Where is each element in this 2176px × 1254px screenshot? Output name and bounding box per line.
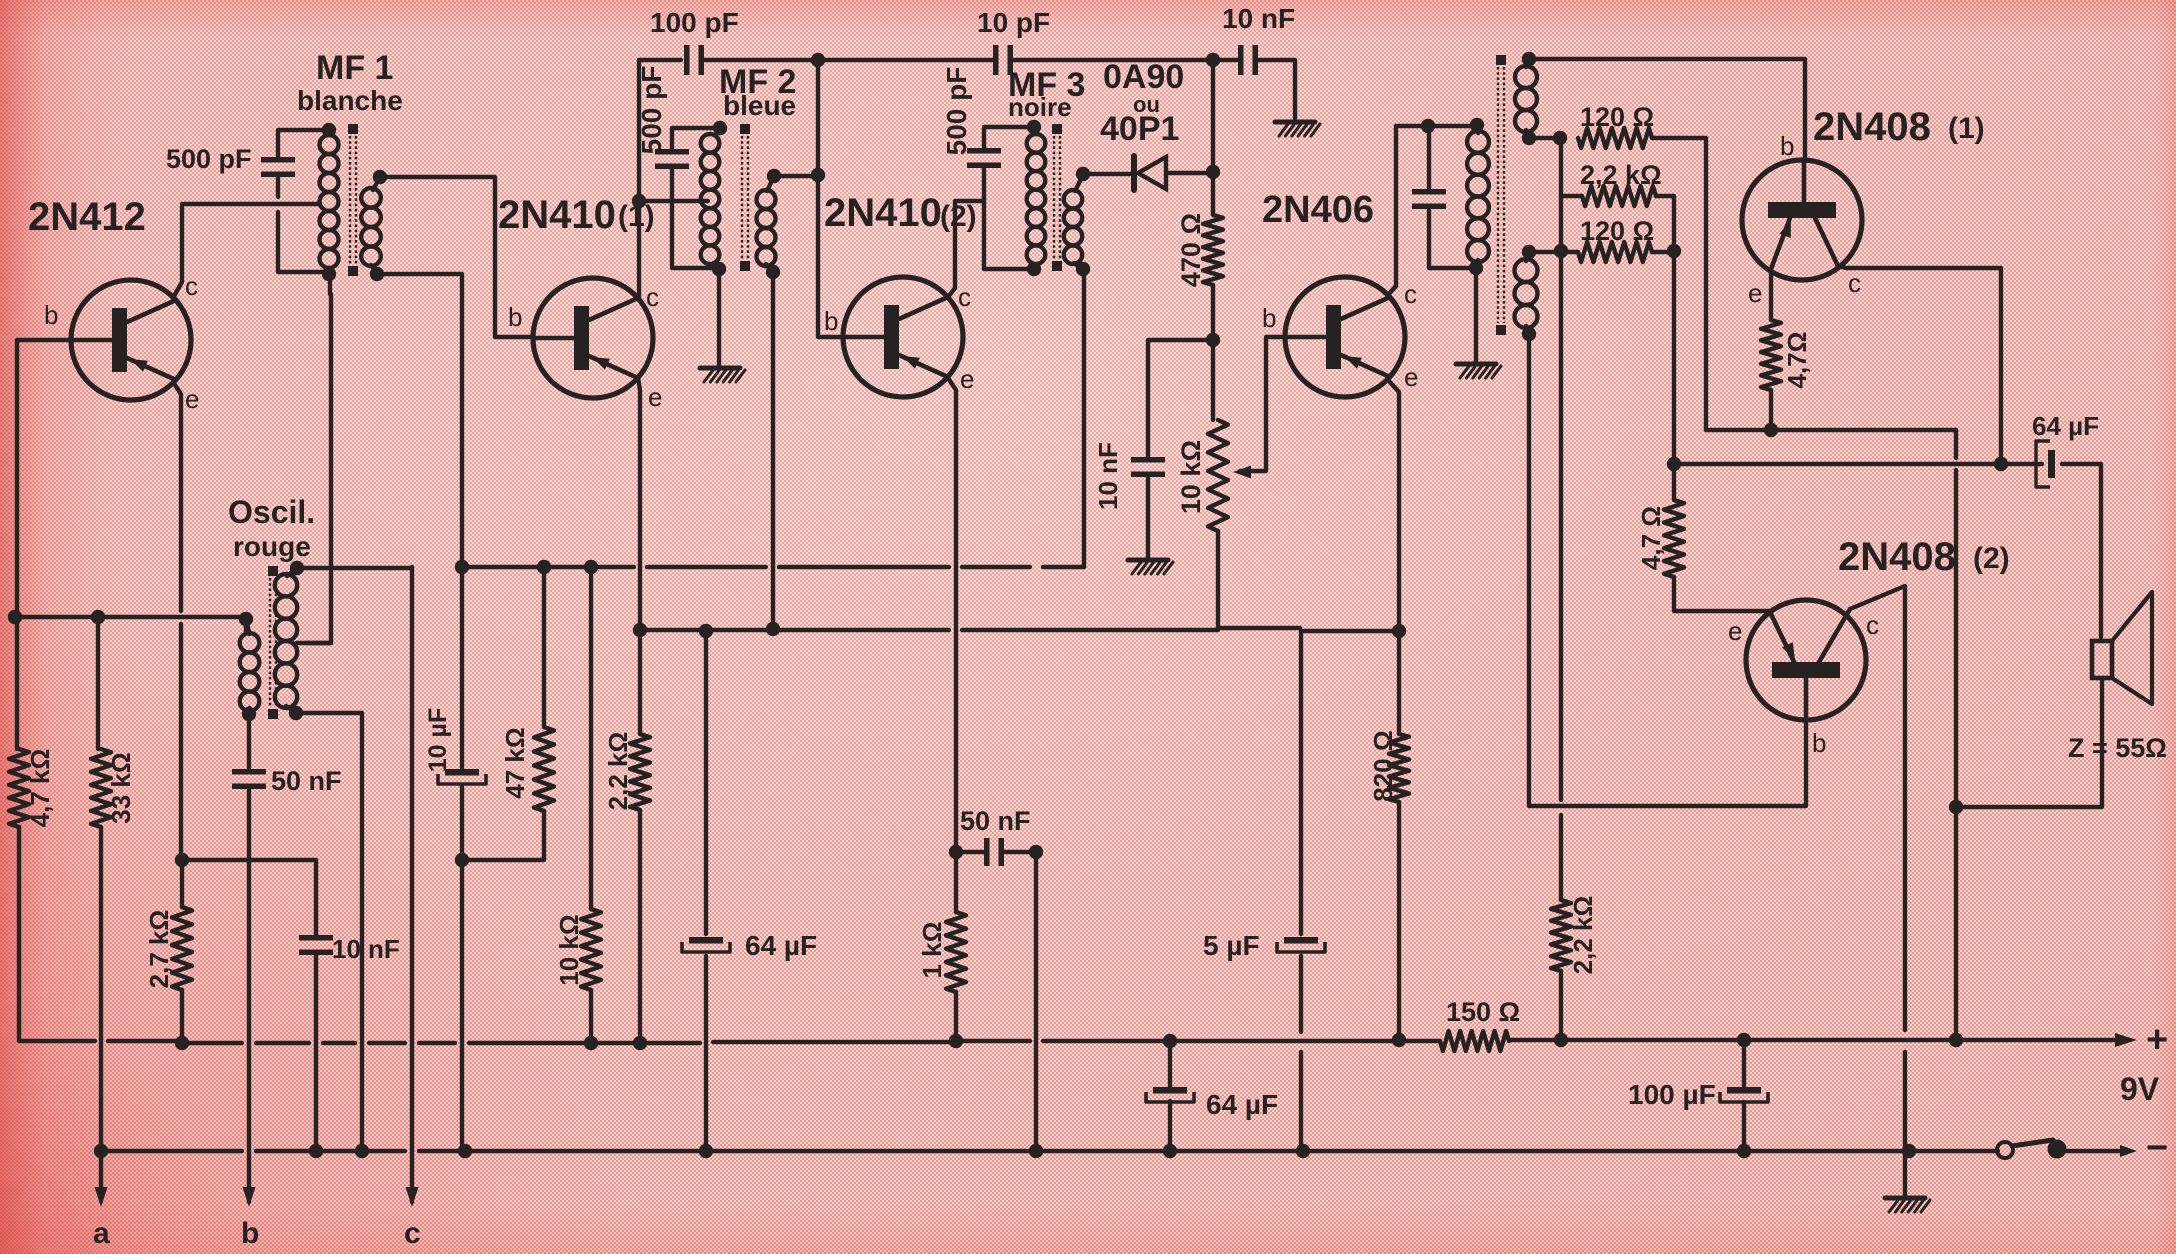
wire AVC line xyxy=(462,565,1084,569)
ground 10nF top xyxy=(1275,122,1320,136)
svg-text:100 pF: 100 pF xyxy=(650,7,739,38)
label 100pF xyxy=(650,7,739,38)
svg-text:(2): (2) xyxy=(940,200,977,233)
svg-text:500 pF: 500 pF xyxy=(941,67,972,156)
resistor 150 xyxy=(1440,1031,1509,1051)
svg-text:e: e xyxy=(648,382,662,412)
svg-text:100 µF: 100 µF xyxy=(1628,1079,1716,1110)
label 10uF xyxy=(424,708,452,772)
svg-text:2,2 kΩ: 2,2 kΩ xyxy=(603,732,633,811)
label 1k xyxy=(917,922,947,979)
switch S1 xyxy=(1997,1140,2067,1159)
resistor 2,2k-2 xyxy=(1551,900,1571,971)
pin c 2N408(2) xyxy=(1866,610,1879,640)
wire MF1 cap top lead xyxy=(278,130,329,158)
svg-text:10 kΩ: 10 kΩ xyxy=(1176,440,1206,514)
svg-text:b: b xyxy=(1780,131,1794,161)
label plus xyxy=(2146,1019,2168,1061)
svg-text:MF 1: MF 1 xyxy=(316,49,393,87)
wire 10nF emitter bypass lower lead xyxy=(314,953,318,1151)
wire 2N410(2) emitter xyxy=(948,378,956,912)
svg-text:4,7Ω: 4,7Ω xyxy=(1782,332,1812,389)
wire 2N412 emitter xyxy=(173,382,181,860)
label 2,2k-3 xyxy=(1580,160,1662,190)
ground switch xyxy=(1885,1198,1930,1212)
wire MF2 secondary bottom drop xyxy=(771,272,775,629)
wire 2N406 emitter xyxy=(1388,380,1399,631)
svg-text:2N408: 2N408 xyxy=(1813,105,1931,149)
pin e 2N410(2) xyxy=(960,364,974,394)
transformer MF3 primary coil xyxy=(1027,134,1046,264)
svg-text:nF: nF xyxy=(368,934,400,964)
label 500pF (MF3) xyxy=(941,67,972,156)
label 4,7-2 xyxy=(1636,506,1666,570)
svg-text:10 nF: 10 nF xyxy=(1222,3,1295,34)
capacitor 500pF (MF2) xyxy=(655,149,689,169)
capacitor 50nF oscillator xyxy=(232,769,266,789)
transistor 2N412 xyxy=(71,280,191,400)
svg-text:5 µF: 5 µF xyxy=(1203,930,1260,961)
wire MF2 primary tap xyxy=(639,199,708,203)
svg-text:64 µF: 64 µF xyxy=(745,930,817,961)
svg-text:2,7 kΩ: 2,7 kΩ xyxy=(144,910,174,989)
svg-text:33 kΩ: 33 kΩ xyxy=(106,752,136,823)
svg-text:e: e xyxy=(1728,616,1742,646)
svg-text:1 kΩ: 1 kΩ xyxy=(917,922,947,979)
pin c 2N406 xyxy=(1404,279,1417,309)
wire c line xyxy=(410,567,414,1202)
wire MF1 secondary top to base xyxy=(380,177,533,337)
transistor 2N408(1) xyxy=(1742,160,1862,280)
svg-text:−: − xyxy=(2146,1127,2168,1169)
wire line y630 xyxy=(640,628,1218,632)
label MF1 xyxy=(316,49,393,87)
wire MF2 primary bottom to ground xyxy=(717,269,721,366)
svg-text:e: e xyxy=(1404,362,1418,392)
svg-text:e: e xyxy=(960,364,974,394)
pin e 2N408(2) xyxy=(1728,616,1742,646)
resistor 1k xyxy=(946,912,966,992)
capacitor 10uF xyxy=(438,769,486,784)
wire MF1 secondary bottom drop xyxy=(377,274,462,567)
label 10k AVC xyxy=(554,914,584,985)
driver transformer secondary top coil xyxy=(1515,66,1537,132)
svg-text:500 pF: 500 pF xyxy=(166,144,252,174)
label 10pF xyxy=(977,7,1050,38)
label 2N408(2) xyxy=(1838,535,2010,579)
svg-text:2,2 kΩ: 2,2 kΩ xyxy=(1580,160,1662,190)
wire driver sec bottom to Q2 base xyxy=(1529,334,1806,806)
capacitor 10nF detector xyxy=(1131,457,1165,477)
svg-text:0A90: 0A90 xyxy=(1103,58,1184,96)
wire 64uF drop xyxy=(704,631,708,1151)
wire 2N410(2) base feed xyxy=(818,60,844,337)
svg-text:b: b xyxy=(508,302,522,332)
svg-text:820 Ω: 820 Ω xyxy=(1368,730,1398,801)
oscillator secondary coil xyxy=(240,633,260,711)
wire speaker bottom xyxy=(1956,680,2102,807)
svg-text:c: c xyxy=(404,1217,421,1250)
label 120-1 xyxy=(1580,102,1654,132)
svg-text:(2): (2) xyxy=(1973,542,2010,575)
arrowhead plus rail xyxy=(2115,1033,2137,1047)
arrowhead minus rail xyxy=(2120,1145,2137,1157)
pin c 2N410(1) xyxy=(646,282,659,312)
svg-text:Z = 55Ω: Z = 55Ω xyxy=(2068,733,2167,763)
arrowhead a xyxy=(95,1187,108,1207)
resistor 470 xyxy=(1203,215,1223,285)
svg-text:c: c xyxy=(185,271,198,301)
wire Q1 emitter xyxy=(1769,269,1773,320)
label 2N410(1) xyxy=(498,193,655,237)
capacitor 10nF top xyxy=(1238,45,1258,75)
capacitor 100uF xyxy=(1720,1087,1768,1102)
resistor 2,2k-3 xyxy=(1582,186,1656,206)
driver transformer secondary bottom coil xyxy=(1515,259,1538,328)
wire 2N410(1) emitter xyxy=(638,378,640,734)
svg-text:blanche: blanche xyxy=(297,85,403,116)
label 120-2 xyxy=(1580,216,1654,246)
svg-text:e: e xyxy=(185,384,199,414)
svg-text:470 Ω: 470 Ω xyxy=(1176,213,1206,287)
wire Q1 collector xyxy=(1838,266,2001,464)
label 2N408(1) xyxy=(1813,105,1985,149)
wire driver cap leads xyxy=(1429,126,1476,268)
capacitor 64uF output xyxy=(2036,441,2055,487)
wire 820 leads xyxy=(1397,631,1401,1040)
driver transformer primary coil xyxy=(1467,131,1489,262)
svg-text:rouge: rouge xyxy=(233,531,311,562)
wire 100uF leads xyxy=(1742,1040,1746,1151)
capacitor 500pF (MF1) xyxy=(261,157,295,177)
pin b 2N412 xyxy=(44,300,58,330)
driver transformer core xyxy=(1496,55,1506,335)
wire diode line xyxy=(1083,173,1213,174)
wire MF3 secondary bottom drop xyxy=(1082,269,1086,567)
wire 47k leads xyxy=(462,567,544,860)
wire 50nF emitter bypass xyxy=(956,850,1036,854)
svg-text:10 pF: 10 pF xyxy=(977,7,1050,38)
svg-text:9V: 9V xyxy=(2120,1071,2160,1107)
svg-text:c: c xyxy=(1866,610,1879,640)
pin e 2N410(1) xyxy=(648,382,662,412)
pin b 2N406 xyxy=(1262,303,1276,333)
wire driver sec top bottom link xyxy=(1529,136,1560,140)
label 470 xyxy=(1176,213,1206,287)
pin c 2N408(1) xyxy=(1848,268,1861,298)
svg-text:Oscil.: Oscil. xyxy=(228,494,315,530)
wire 64uF bottom leads xyxy=(1168,1041,1172,1151)
capacitor 64uF IF xyxy=(682,937,730,952)
svg-text:c: c xyxy=(1848,268,1861,298)
svg-text:50 nF: 50 nF xyxy=(960,806,1031,836)
svg-text:50 nF: 50 nF xyxy=(271,766,342,796)
label 9V xyxy=(2120,1071,2160,1107)
arrowhead c xyxy=(406,1187,419,1207)
wire Q1 base line xyxy=(1529,59,1805,160)
svg-text:150 Ω: 150 Ω xyxy=(1446,997,1520,1027)
wire MF1 cap bottom lead xyxy=(278,176,325,272)
label 2,7k xyxy=(144,910,174,989)
svg-text:b: b xyxy=(824,306,838,336)
ground 10nF detector xyxy=(1128,560,1173,574)
label 820 xyxy=(1368,730,1398,801)
ground driver primary xyxy=(1456,364,1501,378)
speaker Z=55 xyxy=(2092,592,2152,704)
wire MF2 secondary top link xyxy=(774,174,818,178)
wire minus rail after switch xyxy=(2064,1149,2119,1153)
svg-text:4,7 kΩ: 4,7 kΩ xyxy=(25,749,55,828)
oscillator primary coil xyxy=(275,574,297,708)
label 2,2k-2 xyxy=(1568,896,1598,975)
svg-text:64 µF: 64 µF xyxy=(2032,411,2099,441)
svg-text:b: b xyxy=(241,1217,259,1250)
svg-text:120 Ω: 120 Ω xyxy=(1580,102,1654,132)
wire 2,2k-3 right lead xyxy=(1656,196,1674,464)
label MF2 xyxy=(719,63,796,101)
wire 2,2k-2 bias leads xyxy=(1559,971,1563,1040)
label 50nF oscillator xyxy=(271,766,342,796)
wire plus rail xyxy=(19,1040,2119,1043)
svg-text:(1): (1) xyxy=(1948,112,1985,145)
label blanche xyxy=(297,85,403,116)
label 64uF output xyxy=(2032,411,2099,441)
capacitor 10pF xyxy=(993,45,1013,75)
svg-text:e: e xyxy=(1748,278,1762,308)
wire MF3 ground return drop xyxy=(1034,852,1038,1151)
label 64uF bottom xyxy=(1206,1089,1278,1120)
transformer MF3 core xyxy=(1052,124,1062,271)
label 0A90 ou 40P1 xyxy=(1100,58,1184,148)
ground MF2 primary xyxy=(700,368,745,382)
resistor 4,7-2 xyxy=(1664,500,1684,577)
resistor 4,7k xyxy=(9,749,29,827)
wire output rail y464 xyxy=(1674,462,2042,466)
svg-text:64 µF: 64 µF xyxy=(1206,1089,1278,1120)
svg-text:2N410: 2N410 xyxy=(824,191,942,235)
resistor 2,7k xyxy=(172,907,192,990)
wire Q1 emitter resistor bottom xyxy=(1769,390,1773,430)
wire 2,2k bottom lead xyxy=(638,810,642,1041)
svg-text:4,7 Ω: 4,7 Ω xyxy=(1636,506,1666,570)
pin c 2N412 xyxy=(185,271,198,301)
wire 120-2 right lead xyxy=(1652,250,1674,254)
svg-text:bleue: bleue xyxy=(723,90,796,121)
oscillator core xyxy=(268,566,278,719)
wire b line xyxy=(247,714,251,1202)
label 10nF emitter xyxy=(332,934,400,964)
svg-text:b: b xyxy=(44,300,58,330)
pin e 2N408(1) xyxy=(1748,278,1762,308)
svg-text:+: + xyxy=(2146,1019,2168,1061)
transistor 2N408(2) xyxy=(1746,600,1866,720)
wire 10nF detector ground lead xyxy=(1146,476,1150,558)
svg-text:47 kΩ: 47 kΩ xyxy=(500,727,530,798)
resistor 33k xyxy=(91,749,111,827)
label 4,7-1 xyxy=(1782,332,1812,389)
arrowhead b xyxy=(243,1187,256,1207)
label Oscil. xyxy=(228,494,315,530)
transformer MF1 primary coil xyxy=(320,135,339,268)
coil stubs xyxy=(246,59,1529,714)
svg-text:2N412: 2N412 xyxy=(28,195,146,239)
wire MF1 primary bottom to oscillator xyxy=(307,274,331,643)
wire emitter rail drop xyxy=(1954,430,1958,1040)
wire 2N406 collector xyxy=(1388,126,1477,295)
label 10nF top xyxy=(1222,3,1295,34)
transistor 2N410(2) xyxy=(843,277,963,397)
wire bias 120-1 to 2,2k xyxy=(1561,138,1582,900)
wire 120-1 right lead xyxy=(1652,138,1706,430)
wire 2N410(2) collector xyxy=(948,201,984,297)
label 33k xyxy=(106,752,136,823)
transformer MF2 secondary coil xyxy=(757,190,776,266)
wire 10k leads xyxy=(589,567,593,1041)
capacitor 64uF bottom xyxy=(1146,1087,1194,1102)
transformer MF2 core xyxy=(740,124,750,271)
label 10nF detector xyxy=(1093,442,1123,510)
svg-text:120 Ω: 120 Ω xyxy=(1580,216,1654,246)
label 100uF xyxy=(1628,1079,1716,1110)
wire 4,7-2 leads xyxy=(1674,464,1770,612)
label 4,7k xyxy=(25,749,55,828)
transistor 2N410(1) xyxy=(533,278,653,398)
label a xyxy=(93,1217,110,1250)
svg-text:2N406: 2N406 xyxy=(1262,189,1374,231)
label Z=55 xyxy=(2068,733,2167,763)
wire 2N410(1) collector xyxy=(637,60,641,298)
potentiometer 10k xyxy=(1208,420,1228,531)
pin e 2N412 xyxy=(185,384,199,414)
pin b 2N410(1) xyxy=(508,302,522,332)
label 2N406 xyxy=(1262,189,1374,231)
diode OA90 xyxy=(1134,156,1166,190)
wire oscillator tap xyxy=(296,641,331,645)
wire 10nF detector tee xyxy=(1148,340,1213,458)
wire 2N412 collector xyxy=(173,204,320,298)
label b xyxy=(241,1217,259,1250)
wire oscillator primary bottom xyxy=(296,713,362,1151)
wire 2N406 base xyxy=(1240,337,1285,471)
label 2,2k IF1 xyxy=(603,732,633,811)
label 47k xyxy=(500,727,530,798)
wire 120-2 left lead xyxy=(1529,250,1578,254)
wire 2N412 base xyxy=(17,340,71,617)
resistor 10k AVC xyxy=(581,909,601,990)
svg-text:10: 10 xyxy=(332,934,361,964)
label 2N412 xyxy=(28,195,146,239)
svg-text:500 pF: 500 pF xyxy=(636,66,667,155)
resistor 120-1 xyxy=(1578,128,1652,148)
svg-text:10 nF: 10 nF xyxy=(1093,442,1123,510)
capacitor 100pF xyxy=(684,45,704,75)
capacitor 10nF emitter xyxy=(299,935,333,955)
label 5uF xyxy=(1203,930,1260,961)
svg-text:c: c xyxy=(958,282,971,312)
svg-text:noire: noire xyxy=(1008,92,1072,122)
pin b 2N408(2) xyxy=(1812,728,1826,758)
pin c 2N410(2) xyxy=(958,282,971,312)
wire 33k leads xyxy=(98,617,101,1201)
wiper arrow 10k xyxy=(1233,466,1251,479)
transformer MF3 secondary coil xyxy=(1064,190,1082,264)
wire driver primary bottom to ground xyxy=(1474,268,1478,362)
resistor 4,7-1 xyxy=(1761,320,1781,390)
capacitor driver tank xyxy=(1412,189,1446,209)
capacitor 50nF emitter xyxy=(984,838,1004,866)
transistor 2N406 xyxy=(1285,277,1405,397)
wire 64uF to speaker xyxy=(2062,464,2101,637)
svg-text:10 µF: 10 µF xyxy=(424,708,452,772)
wire 1k bottom lead xyxy=(954,992,958,1041)
label c xyxy=(404,1217,421,1250)
svg-text:2N408: 2N408 xyxy=(1838,535,1956,579)
svg-text:40P1: 40P1 xyxy=(1100,110,1179,148)
wire Q2 collector xyxy=(1850,586,1905,1151)
capacitor 500pF (MF3) xyxy=(967,148,1001,168)
label noire xyxy=(1008,92,1072,122)
pin b 2N408(1) xyxy=(1780,131,1794,161)
wire oscillator primary top xyxy=(297,566,412,570)
wire detector vertical xyxy=(1213,60,1300,628)
wire MF2 cap bottom lead xyxy=(672,166,713,268)
label rouge xyxy=(233,531,311,562)
resistor 47k xyxy=(534,727,554,811)
svg-text:a: a xyxy=(93,1217,110,1250)
pin b 2N410(2) xyxy=(824,306,838,336)
svg-text:c: c xyxy=(1404,279,1417,309)
capacitor 5uF xyxy=(1277,937,1325,952)
wire AVC decoupling drop xyxy=(460,567,464,1151)
wire emitter rail y430 xyxy=(1706,428,1956,432)
svg-text:b: b xyxy=(1812,728,1826,758)
wire MF3 cap leads xyxy=(984,127,1028,269)
label minus xyxy=(2146,1127,2168,1169)
transformer MF1 core xyxy=(348,124,358,276)
wire 2,7k leads xyxy=(180,860,184,1043)
wire 5uF tee xyxy=(1301,631,1399,1151)
wire bias line y617 xyxy=(17,615,243,619)
label 64uF IF xyxy=(745,930,817,961)
resistor 120-2 xyxy=(1578,242,1652,262)
wire emitter node y860 xyxy=(182,860,316,937)
svg-text:c: c xyxy=(646,282,659,312)
label 500pF (MF1) xyxy=(166,144,252,174)
label MF3 xyxy=(1008,66,1085,104)
wire switch ground lead xyxy=(1903,1151,1907,1196)
transformer MF1 secondary coil xyxy=(361,188,381,266)
wire minus rail xyxy=(101,1149,1998,1153)
label 10k pot xyxy=(1176,440,1206,514)
pin e 2N406 xyxy=(1404,362,1418,392)
label 2N410(2) xyxy=(824,191,977,235)
svg-text:2,2 kΩ: 2,2 kΩ xyxy=(1568,896,1598,975)
resistor 2,2k IF1 xyxy=(630,734,650,810)
label bleue xyxy=(723,90,796,121)
svg-text:10 kΩ: 10 kΩ xyxy=(554,914,584,985)
transformer MF2 primary coil xyxy=(701,134,720,264)
label 50nF emitter xyxy=(960,806,1031,836)
resistor 820 xyxy=(1389,734,1409,802)
wire oscillator secondary top xyxy=(244,619,248,632)
wire top coupling line xyxy=(639,60,1295,118)
label 500pF (MF2) xyxy=(636,66,667,155)
svg-text:2N410: 2N410 xyxy=(498,193,616,237)
label 150 xyxy=(1446,997,1520,1027)
wire MF2 cap top lead xyxy=(672,128,714,152)
svg-text:b: b xyxy=(1262,303,1276,333)
wire 4,7k leads xyxy=(17,617,19,1041)
